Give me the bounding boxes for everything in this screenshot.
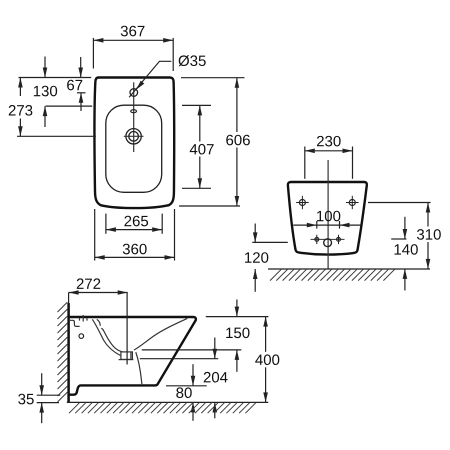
- side fixing hole: [79, 334, 84, 339]
- drain crosshair: [124, 135, 144, 137]
- nozzle: [119, 352, 134, 360]
- dimension 35: [18, 373, 60, 423]
- spout bottom line B2: [140, 358, 218, 360]
- dimension 67: [67, 57, 85, 111]
- rear ground hatching: [270, 269, 395, 280]
- side ground hatching: [69, 403, 256, 414]
- dimension 273: [9, 78, 96, 137]
- drain outer circle: [126, 129, 141, 144]
- drain inner circle: [129, 132, 139, 142]
- centerline top view: [133, 82, 135, 152]
- rear ground line: [268, 268, 430, 270]
- dimension 100: [293, 211, 360, 229]
- dimension 120: [245, 224, 288, 292]
- side rim hook curve: [97, 319, 100, 325]
- side back wall inner curve: [101, 328, 122, 352]
- side ledge profile: [70, 320, 80, 326]
- basin front curve: [134, 318, 187, 350]
- dimension 400: [253, 317, 283, 403]
- rear lower hole right: [337, 235, 341, 244]
- dimension 606: [179, 78, 253, 206]
- faucet hole: [130, 89, 138, 97]
- rear mounting hole left: [296, 196, 309, 209]
- dimension 407: [182, 105, 215, 188]
- rear lower holes crossline: [311, 238, 345, 240]
- dimension 80: [176, 364, 195, 421]
- wall line: [67, 303, 70, 403]
- dimension 230: [305, 136, 353, 179]
- rear drain hole: [324, 239, 332, 247]
- overflow slot: [131, 110, 137, 113]
- wall hatching: [58, 302, 68, 402]
- dimension 204: [202, 338, 230, 419]
- spout level line B1: [142, 349, 242, 351]
- bidet outline side view: [69, 317, 196, 395]
- 80 level line: [166, 385, 207, 387]
- rim top extension line: [206, 316, 269, 318]
- dimension 272: [69, 278, 128, 364]
- dimension 130: [34, 57, 92, 128]
- side ground line: [67, 401, 268, 403]
- top edge extension line (left): [19, 77, 92, 79]
- dimension 140: [391, 217, 418, 291]
- basin oval top view: [106, 105, 162, 192]
- inlet tick marks: [80, 315, 88, 322]
- basin front lower line: [136, 352, 142, 384]
- side back wall outer curve: [92, 319, 120, 355]
- bidet outline rear view: [288, 182, 367, 255]
- dimension 310: [368, 203, 444, 269]
- dimension 265: [106, 214, 162, 234]
- rear lower hole left: [315, 235, 319, 244]
- rear centerline: [327, 160, 329, 269]
- dimension 367: [93, 26, 173, 71]
- dimension 360: [95, 209, 175, 261]
- bidet outline top view: [94, 78, 174, 209]
- dimension 150: [226, 300, 249, 372]
- rear mounting hole right: [346, 196, 359, 209]
- label Ø35 with leader: [129, 55, 206, 97]
